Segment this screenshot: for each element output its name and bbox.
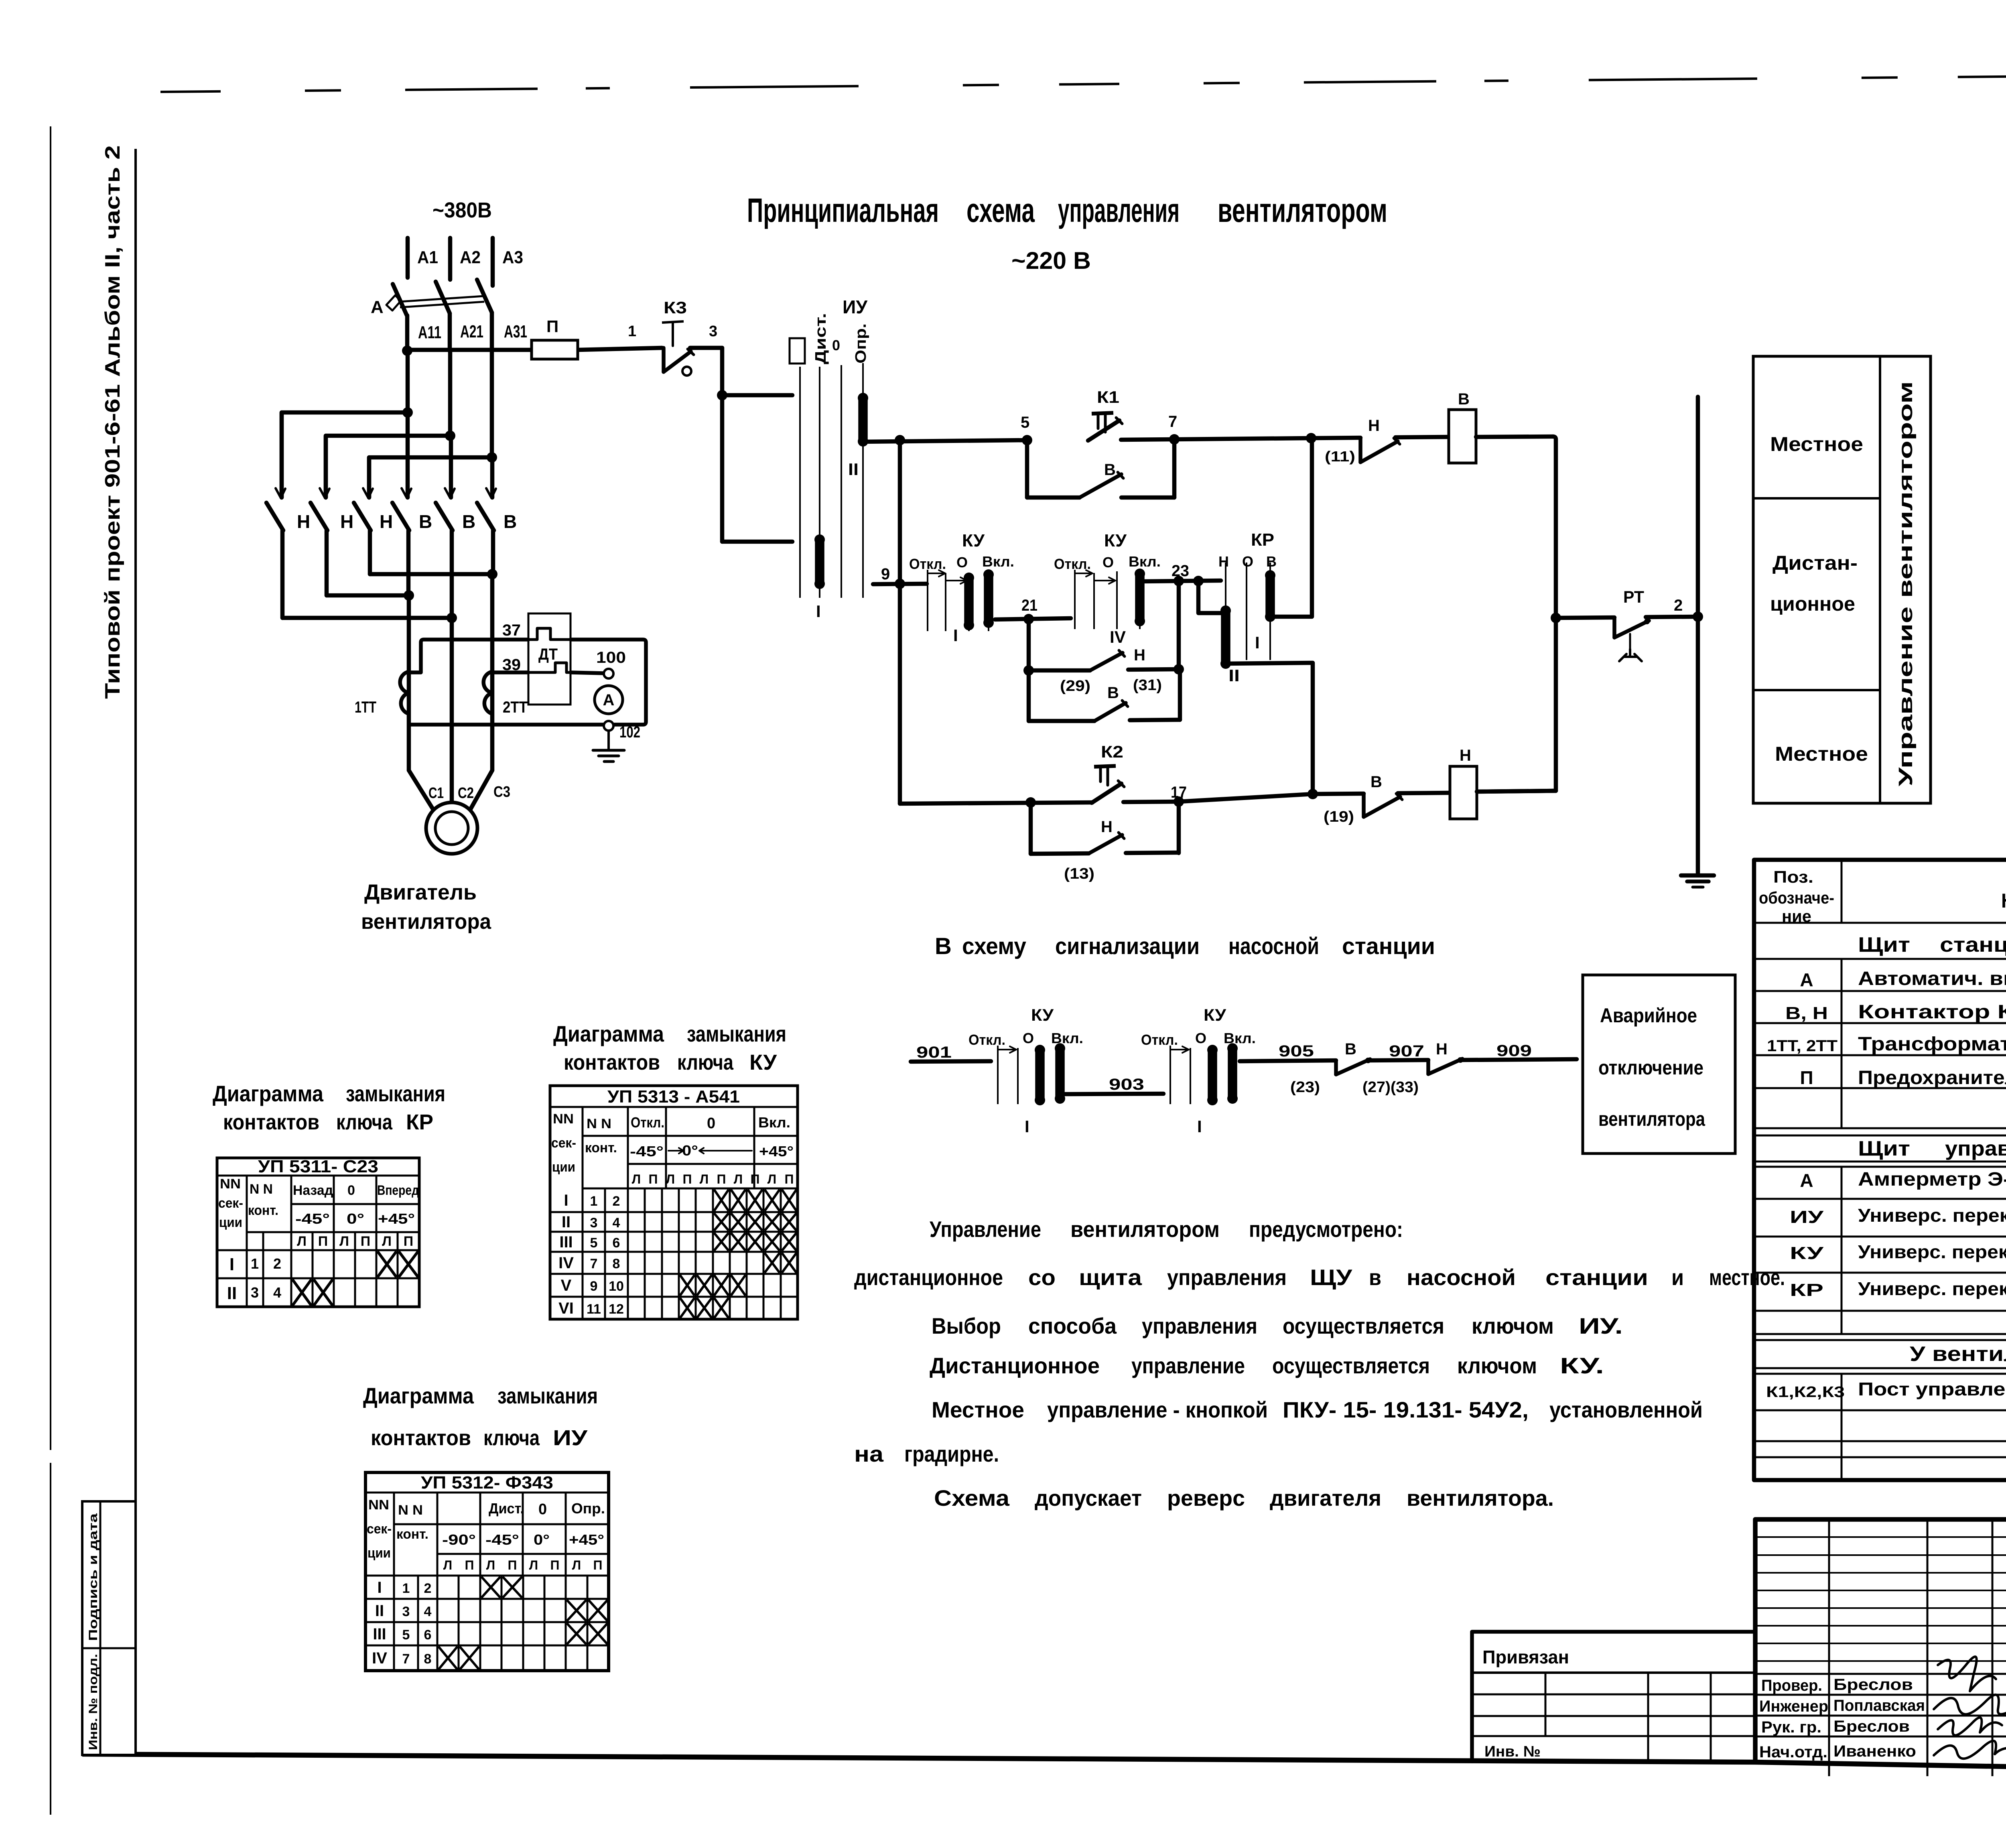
svg-text:37: 37 (502, 621, 521, 639)
svg-text:В: В (1345, 1040, 1356, 1058)
circuit breaker А (393, 284, 407, 315)
svg-text:11: 11 (587, 1302, 601, 1317)
svg-text:насосной: насосной (1228, 933, 1319, 959)
wire: coil Н return riser (1554, 618, 1558, 791)
svg-text:Л: Л (632, 1172, 641, 1186)
svg-text:С1: С1 (428, 785, 444, 802)
svg-text:Опр.: Опр. (571, 1500, 605, 1517)
svg-text:Л: Л (339, 1234, 349, 1249)
svg-text:Местное: Местное (1775, 743, 1868, 765)
svg-text:допускает: допускает (1035, 1485, 1142, 1511)
svg-text:ПКУ- 15- 19.131- 54У2,: ПКУ- 15- 19.131- 54У2, (1283, 1397, 1529, 1422)
svg-text:Н: Н (1460, 747, 1471, 764)
wire jog: bus to Н3 (369, 351, 492, 498)
svg-text:замыкания: замыкания (687, 1021, 786, 1046)
svg-text:О: О (1195, 1030, 1206, 1046)
node 5 (1022, 435, 1032, 445)
svg-text:обозначе-: обозначе- (1759, 888, 1834, 907)
svg-text:IV: IV (372, 1649, 387, 1667)
svg-text:ции: ции (367, 1545, 391, 1561)
svg-text:контактов: контактов (371, 1426, 471, 1450)
svg-text:8: 8 (613, 1256, 620, 1271)
svg-text:39: 39 (502, 656, 521, 674)
svg-text:0°: 0° (682, 1142, 698, 1159)
svg-text:(31): (31) (1133, 677, 1162, 694)
svg-text:N N: N N (250, 1182, 273, 1197)
svg-text:ключом: ключом (1457, 1353, 1537, 1378)
svg-text:I: I (1197, 1117, 1202, 1136)
svg-text:~380В: ~380В (432, 198, 492, 222)
svg-text:со: со (1028, 1265, 1056, 1290)
svg-text:N N: N N (587, 1116, 611, 1131)
svg-text:В: В (462, 511, 475, 532)
contactor coil Н (1450, 766, 1477, 819)
svg-text:Н: Н (1134, 646, 1145, 664)
svg-text:Универс. переключат. УП 531: Универс. переключат. УП 5311 - С23 (1858, 1278, 2006, 1299)
svg-text:Л: Л (529, 1558, 538, 1572)
wire 39 (492, 670, 528, 674)
svg-text:I: I (564, 1192, 568, 1209)
svg-text:NN: NN (220, 1176, 241, 1192)
svg-text:(29): (29) (1060, 678, 1090, 695)
svg-text:Дистанционное: Дистанционное (930, 1353, 1100, 1378)
svg-text:градирне.: градирне. (904, 1441, 999, 1466)
svg-text:П: П (683, 1172, 692, 1186)
box Аварийное отключение вентилятора (1583, 975, 1735, 1153)
svg-text:Н: Н (1218, 553, 1229, 570)
svg-text:NN: NN (368, 1497, 389, 1513)
svg-text:осуществляется: осуществляется (1283, 1313, 1444, 1338)
wire: node23 to bridges (1177, 581, 1181, 669)
svg-text:А2: А2 (460, 248, 481, 267)
svg-text:П: П (465, 1558, 474, 1572)
contact Н (11) (1311, 438, 1360, 438)
svg-text:4: 4 (424, 1604, 432, 1619)
wire: right rail (neutral) (1696, 397, 1700, 873)
svg-text:КР: КР (1251, 530, 1274, 550)
svg-text:907: 907 (1389, 1042, 1424, 1060)
svg-text:установленной: установленной (1549, 1397, 1703, 1422)
svg-text:УП 5311- С23: УП 5311- С23 (258, 1157, 378, 1176)
svg-text:КУ.: КУ. (1560, 1353, 1604, 1378)
svg-text:П: П (508, 1558, 517, 1572)
motor line 3 (С3) (490, 574, 495, 770)
wire: top control rail (863, 440, 1027, 442)
svg-text:-45°: -45° (630, 1143, 664, 1160)
svg-text:4: 4 (613, 1215, 620, 1231)
wire: stub to ИУ contact II (722, 540, 792, 544)
svg-text:В: В (1107, 684, 1119, 702)
ИУ closed marks (481, 1577, 500, 1598)
svg-text:II: II (562, 1213, 571, 1231)
svg-text:ИУ: ИУ (553, 1426, 588, 1450)
node 17 (1174, 796, 1184, 807)
svg-text:Л: Л (297, 1234, 307, 1249)
ground (right rail) (1681, 873, 1714, 878)
switch ИУ line 1 (799, 367, 801, 598)
switch ИУ line 3 (0) (841, 365, 842, 598)
svg-text:КУ: КУ (749, 1050, 777, 1074)
wire 903 (1065, 1094, 1163, 1094)
title block fine rows (1755, 1536, 2006, 1538)
switch КУ contacts 3-4 (right group) (1074, 570, 1076, 629)
switch КР lines (1225, 563, 1226, 608)
svg-text:ключа: ключа (483, 1426, 540, 1450)
svg-text:III: III (373, 1625, 386, 1643)
wire jog: Н1 to motor line 2 (282, 616, 452, 620)
svg-text:1: 1 (251, 1255, 259, 1272)
parts table horizontal lines (1754, 922, 2006, 924)
svg-text:дистанционное: дистанционное (854, 1265, 1003, 1290)
stamp Привязан box (1472, 1632, 1755, 1761)
svg-text:1: 1 (590, 1194, 598, 1209)
svg-text:станции: станции (1342, 933, 1435, 959)
sheet left outer line (50, 126, 51, 1450)
svg-text:отключение: отключение (1598, 1056, 1703, 1079)
svg-text:управления: управления (1058, 191, 1180, 229)
wire: ДТ to terminal 100 (571, 672, 604, 673)
svg-text:Дист.: Дист. (489, 1500, 524, 1517)
wire: node 23 rail (1142, 581, 1221, 581)
svg-text:Л: Л (443, 1558, 452, 1572)
svg-text:П: П (717, 1172, 726, 1186)
svg-text:Дист.: Дист. (812, 313, 829, 364)
svg-text:А31: А31 (504, 322, 527, 341)
svg-text:Поплавская: Поплавская (1833, 1697, 1925, 1714)
diagram table ИУ (УП 5312-Ф343) (365, 1472, 609, 1671)
switch КР bar Н (1221, 611, 1230, 664)
contactor coil В (1449, 410, 1476, 463)
svg-text:Управление: Управление (930, 1216, 1041, 1242)
svg-text:II: II (848, 460, 859, 479)
svg-text:Щит: Щит (1858, 933, 1910, 956)
contact Н (signal) (1426, 1060, 1430, 1074)
svg-text:Выбор: Выбор (932, 1313, 1001, 1338)
node at (11) branch (1306, 433, 1316, 443)
svg-text:Л: Л (700, 1172, 709, 1186)
svg-text:IV: IV (1110, 628, 1126, 646)
wire: to coil Н (1398, 793, 1450, 793)
svg-text:Вкл.: Вкл. (1051, 1030, 1083, 1046)
svg-text:Н: Н (297, 511, 310, 532)
svg-text:0°: 0° (534, 1531, 550, 1548)
svg-text:схему: схему (962, 933, 1026, 959)
svg-text:П: П (785, 1172, 794, 1186)
wire А21 (448, 313, 452, 351)
svg-text:Принципиальная: Принципиальная (747, 191, 939, 229)
svg-text:Иваненко: Иваненко (1833, 1742, 1916, 1760)
svg-text:(13): (13) (1064, 865, 1094, 882)
wire 901 (911, 1061, 991, 1062)
svg-text:вентилятора: вентилятора (1598, 1108, 1706, 1130)
svg-text:7: 7 (590, 1256, 598, 1271)
feeder wire А2 (448, 238, 453, 280)
svg-text:Контактор КТ6033С ,: Контактор КТ6033С , (1858, 1001, 2006, 1023)
svg-text:В: В (1458, 390, 1470, 408)
svg-text:КУ: КУ (1031, 1005, 1054, 1024)
svg-text:Аварийное: Аварийное (1600, 1004, 1697, 1027)
svg-text:Н: Н (1436, 1040, 1448, 1058)
svg-text:Наименование: Наименование (2001, 889, 2006, 912)
svg-text:В: В (1266, 553, 1277, 570)
КР closed marks row I (378, 1251, 396, 1277)
svg-text:0°: 0° (347, 1210, 364, 1227)
svg-text:УП 5313 - А541: УП 5313 - А541 (607, 1087, 740, 1107)
svg-text:конт.: конт. (248, 1203, 278, 1218)
svg-text:Вкл.: Вкл. (1129, 553, 1161, 570)
svg-text:6: 6 (424, 1627, 432, 1643)
node РТ junction (1551, 613, 1561, 623)
svg-text:А1: А1 (417, 248, 438, 267)
svg-text:Универс. переключат. УП 531: Универс. переключат. УП 5313 - А541 (1858, 1241, 2006, 1262)
svg-text:Вкл.: Вкл. (1224, 1030, 1256, 1046)
svg-text:2: 2 (424, 1581, 432, 1596)
svg-text:двигателя: двигателя (1270, 1485, 1381, 1511)
svg-text:А: А (371, 297, 384, 317)
sheet top border (dashed) (160, 72, 2006, 92)
svg-text:К1,К2,К3: К1,К2,К3 (1766, 1384, 1845, 1401)
node 2 on right rail (1693, 611, 1703, 622)
svg-text:Н: Н (340, 511, 353, 532)
svg-text:100: 100 (596, 649, 626, 666)
svg-text:В, Н: В, Н (1785, 1003, 1828, 1023)
svg-text:12: 12 (609, 1302, 624, 1317)
svg-text:Вперед: Вперед (377, 1183, 419, 1198)
svg-text:Управление вентилятором: Управление вентилятором (1895, 381, 1917, 786)
svg-text:3: 3 (402, 1604, 410, 1619)
svg-text:П: П (649, 1172, 658, 1186)
svg-text:ИУ: ИУ (843, 296, 868, 317)
svg-text:О: О (1102, 554, 1114, 571)
svg-text:I: I (377, 1579, 382, 1596)
svg-text:Вкл.: Вкл. (982, 553, 1014, 570)
svg-text:1ТТ, 2ТТ: 1ТТ, 2ТТ (1767, 1037, 1837, 1055)
svg-text:ние: ние (1782, 907, 1811, 926)
svg-text:2: 2 (273, 1255, 281, 1272)
svg-text:I: I (816, 602, 821, 621)
wire: rail К2 to node 17 (1123, 802, 1179, 802)
wire: coil Н to riser (1477, 791, 1556, 792)
svg-text:1: 1 (628, 323, 636, 340)
wire 9 rail (873, 584, 927, 584)
node 21 (995, 618, 1071, 619)
svg-text:0: 0 (538, 1501, 547, 1518)
svg-text:-90°: -90° (442, 1531, 476, 1548)
svg-text:0: 0 (832, 337, 840, 353)
switch КУ signal group 2 (1169, 1046, 1171, 1104)
svg-text:П: П (361, 1234, 370, 1249)
svg-text:Бреслов: Бреслов (1833, 1718, 1910, 1735)
svg-text:Поз.: Поз. (1773, 867, 1813, 886)
svg-text:II: II (1228, 666, 1240, 685)
svg-text:Назад: Назад (293, 1183, 333, 1198)
svg-text:щита: щита (1079, 1265, 1142, 1290)
svg-text:управления: управления (1142, 1313, 1257, 1338)
svg-text:контактов: контактов (564, 1050, 660, 1074)
svg-text:V: V (561, 1277, 572, 1294)
svg-text:6: 6 (613, 1235, 620, 1251)
wire jog: bus to Н1 (282, 351, 408, 498)
wire 909 (1460, 1059, 1577, 1060)
svg-text:А: А (603, 691, 615, 709)
svg-text:ключа: ключа (677, 1050, 734, 1074)
svg-text:вентилятора: вентилятора (361, 910, 491, 934)
wire 3 (690, 346, 722, 350)
svg-text:Универс. переключат. УП 5312: Универс. переключат. УП 5312 - Ф343 (1858, 1205, 2006, 1226)
svg-text:2: 2 (613, 1194, 620, 1209)
svg-text:1: 1 (402, 1581, 410, 1596)
svg-text:А: А (1800, 969, 1813, 990)
svg-text:Л: Л (382, 1234, 392, 1249)
motor line 2 (С2) (450, 618, 454, 803)
contactor contact В (phase 1) (406, 412, 410, 498)
svg-text:КУ: КУ (1104, 531, 1127, 550)
svg-text:0: 0 (347, 1183, 355, 1198)
wire 907 (1367, 1060, 1428, 1060)
svg-text:Вкл.: Вкл. (758, 1114, 790, 1131)
svg-text:I: I (1255, 633, 1260, 652)
sheet bottom frame line (82, 1754, 1755, 1762)
svg-text:VI: VI (558, 1300, 574, 1317)
svg-text:~220 В: ~220 В (1011, 247, 1091, 274)
svg-text:Н: Н (1368, 417, 1380, 435)
svg-text:Диаграмма: Диаграмма (553, 1021, 664, 1046)
svg-text:РТ: РТ (1623, 587, 1644, 606)
contact В (19) (1313, 794, 1364, 794)
svg-text:К3: К3 (664, 298, 687, 317)
wire jog: Н2 to motor line 1 (327, 593, 409, 598)
svg-text:Инв. № подл.: Инв. № подл. (87, 1654, 100, 1750)
svg-text:А: А (1800, 1170, 1813, 1191)
node (19) (1308, 789, 1318, 799)
svg-text:2: 2 (1674, 597, 1683, 614)
motor (409, 770, 433, 810)
svg-text:А21: А21 (460, 322, 483, 341)
switch ИУ line 4 (Опр) with closed bar (862, 363, 864, 396)
svg-text:Л: Л (666, 1172, 675, 1186)
svg-text:П: П (404, 1234, 413, 1249)
svg-text:управление - кнопкой: управление - кнопкой (1047, 1397, 1268, 1422)
svg-text:насосной: насосной (1407, 1265, 1516, 1290)
svg-text:Рук. гр.: Рук. гр. (1761, 1718, 1821, 1736)
switch КУ signal group 1 (997, 1046, 999, 1104)
svg-text:903: 903 (1109, 1076, 1144, 1093)
switch ИУ frame mark (790, 338, 805, 364)
svg-text:станций: станций (1940, 933, 2006, 956)
svg-text:Н: Н (1101, 818, 1113, 836)
svg-text:Бреслов: Бреслов (1833, 1676, 1913, 1694)
svg-text:местное.: местное. (1709, 1265, 1785, 1290)
svg-text:КУ: КУ (962, 531, 985, 550)
svg-text:вентилятором: вентилятором (1218, 191, 1387, 229)
svg-text:I: I (953, 626, 958, 645)
wire: bottom control rail (900, 802, 1092, 804)
svg-text:5: 5 (590, 1235, 598, 1251)
contactor contact Н (phase 1) (280, 412, 284, 498)
contactor contact В (phase 3) (490, 457, 495, 498)
svg-text:ИУ.: ИУ. (1579, 1313, 1623, 1338)
svg-text:управление: управление (1131, 1353, 1245, 1378)
svg-text:П: П (550, 1558, 560, 1572)
КР closed marks row II (292, 1279, 311, 1306)
svg-text:Предохранитель ПРС-20-П.Iпл.в: Предохранитель ПРС-20-П.Iпл.вст.=16А (1858, 1067, 2006, 1088)
svg-text:Инв. №: Инв. № (1484, 1743, 1541, 1760)
wire: node 21 down to bridges (1027, 619, 1031, 721)
svg-text:III: III (559, 1233, 573, 1251)
diagram table КУ (УП 5313-А541) (550, 1086, 798, 1319)
svg-text:В: В (419, 511, 432, 532)
svg-text:0: 0 (707, 1115, 715, 1132)
svg-text:Нач.отд.: Нач.отд. (1759, 1743, 1827, 1761)
svg-text:контактов: контактов (223, 1110, 319, 1134)
Привязан grid (1472, 1694, 1755, 1696)
svg-text:10: 10 (609, 1279, 624, 1294)
wire: stub to ИУ contact I (722, 393, 792, 398)
svg-text:П: П (1800, 1067, 1813, 1088)
svg-text:К1: К1 (1097, 388, 1119, 406)
svg-text:7: 7 (402, 1651, 410, 1667)
wire: top rail 5-7 (1121, 439, 1174, 440)
wire 905 (1240, 1060, 1336, 1061)
svg-text:909: 909 (1496, 1042, 1532, 1060)
node 23 (1174, 576, 1184, 586)
svg-text:102: 102 (619, 723, 640, 741)
svg-text:Л: Л (767, 1172, 776, 1186)
motor line 1 (С1) (407, 595, 411, 770)
svg-text:сек-: сек- (551, 1135, 576, 1151)
svg-text:(27)(33): (27)(33) (1362, 1079, 1419, 1096)
svg-text:Местное: Местное (1770, 433, 1863, 455)
svg-text:+45°: +45° (759, 1143, 794, 1160)
svg-text:4: 4 (273, 1284, 281, 1301)
svg-text:ИУ: ИУ (1790, 1207, 1824, 1227)
svg-text:(19): (19) (1324, 808, 1354, 825)
КУ closed marks (714, 1190, 729, 1211)
svg-text:О: О (1242, 553, 1253, 570)
svg-text:В: В (935, 933, 952, 959)
svg-text:Л: Л (572, 1558, 581, 1572)
terminal 102 (604, 721, 613, 731)
svg-text:IV: IV (558, 1254, 574, 1272)
svg-text:905: 905 (1279, 1042, 1314, 1060)
svg-text:7: 7 (1168, 413, 1177, 431)
svg-text:(23): (23) (1290, 1079, 1320, 1096)
svg-text:Откл.: Откл. (968, 1032, 1005, 1048)
svg-text:(11): (11) (1325, 448, 1355, 465)
wire: to coil В (1395, 437, 1449, 437)
wire: top rail 7 to node (11) (1174, 438, 1311, 439)
svg-text:Инженер: Инженер (1759, 1698, 1828, 1715)
svg-text:3: 3 (709, 323, 717, 340)
svg-text:КУ: КУ (1204, 1005, 1226, 1024)
svg-text:вентилятора.: вентилятора. (1407, 1485, 1554, 1511)
wire: КР В contact to top rail (1270, 438, 1312, 617)
title block internal columns (left part) (1828, 1519, 1830, 1776)
svg-text:9: 9 (881, 565, 890, 583)
svg-text:А11: А11 (418, 323, 441, 342)
svg-text:I: I (229, 1255, 234, 1274)
svg-text:УП 5312- Ф343: УП 5312- Ф343 (421, 1473, 553, 1493)
svg-text:С2: С2 (458, 785, 474, 802)
svg-text:В: В (1104, 461, 1116, 479)
wire 37 secondary loop (409, 640, 528, 672)
wire 1 control bus (407, 348, 532, 352)
svg-text:Подпись и дата: Подпись и дата (87, 1513, 100, 1641)
node: junction of wire 3 branch with control rails (898, 440, 902, 804)
svg-text:А3: А3 (502, 248, 523, 267)
svg-text:I: I (1025, 1117, 1029, 1136)
svg-text:вентилятором: вентилятором (1070, 1216, 1220, 1242)
